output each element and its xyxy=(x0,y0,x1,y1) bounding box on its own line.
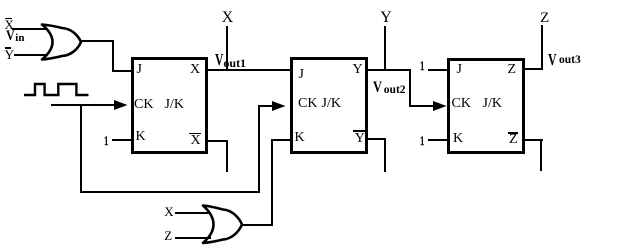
node X label top xyxy=(222,10,234,26)
wire X node vertical xyxy=(226,26,228,71)
wire into J1 xyxy=(112,70,132,72)
wire clock feed to CK1 xyxy=(51,104,117,106)
pin label J3 xyxy=(457,63,462,77)
label J/K U3 xyxy=(483,97,502,111)
label J/K U1 xyxy=(165,98,184,112)
pin label J2 xyxy=(299,68,304,82)
pin label Z out U3 xyxy=(508,63,517,77)
clock waveform symbol xyxy=(22,81,92,99)
node Z label OR2 input xyxy=(164,229,172,242)
pin label Zbar out U3 xyxy=(509,133,518,147)
wire OR1 output horizontal xyxy=(80,40,114,42)
wire into CK3 xyxy=(409,105,435,107)
or-gate G1 xyxy=(39,23,85,63)
arrowhead CK3 xyxy=(433,101,447,111)
wire Y output U2 xyxy=(365,69,411,71)
node Ybar input label xyxy=(5,48,14,61)
node Vout2 label xyxy=(373,80,382,96)
pin label X out U1 xyxy=(190,63,200,77)
flip-flop U1 box xyxy=(131,57,208,154)
pin label K3 xyxy=(453,132,463,146)
wire OR2 output vertical up xyxy=(271,139,273,226)
value 1 at J3 xyxy=(420,59,424,72)
arrowhead CK2 xyxy=(272,101,286,111)
label J/K U2 xyxy=(322,97,341,111)
wire OR2 output horizontal xyxy=(241,224,273,226)
wire Ybar output U2 xyxy=(365,138,386,140)
overline of Zbar out U3 xyxy=(508,132,518,134)
node Vout3 label xyxy=(548,51,557,68)
wire Y node vertical xyxy=(384,26,386,71)
wire Z node vertical xyxy=(541,25,543,69)
wire clock branch bottom horizontal xyxy=(80,191,260,193)
wire clock branch vertical down xyxy=(80,104,82,193)
overline of Xbar out U1 xyxy=(189,133,200,135)
wire 1 to K1 xyxy=(112,139,132,141)
node Y label top xyxy=(380,10,392,26)
wire Ybar stub vertical xyxy=(384,138,386,172)
wire Z output U3 xyxy=(523,68,544,70)
overline of Ybar out U2 xyxy=(353,130,365,132)
wire Y to CK3 vertical xyxy=(409,69,411,106)
wire Xbar output U1 xyxy=(206,140,228,142)
wire Ybar to OR1 xyxy=(14,54,51,56)
wire into K2 xyxy=(271,139,291,141)
pin label J1 xyxy=(137,63,142,77)
flip-flop U2 box xyxy=(290,57,368,154)
wire X output U1 to J2 xyxy=(206,69,291,71)
pin label Ybar out U2 xyxy=(355,132,365,146)
node Vin label xyxy=(6,29,15,44)
pin label CK1 xyxy=(134,98,153,112)
node Vout1 label xyxy=(215,51,223,68)
pin label K1 xyxy=(136,130,146,144)
wire clock branch vertical up to CK2 xyxy=(258,105,260,193)
node X label OR2 input xyxy=(164,205,173,218)
pin label Y out U2 xyxy=(353,63,363,77)
wire 1 to J3 xyxy=(428,69,447,71)
wire Zbar output U3 xyxy=(523,139,544,141)
value 1 at K1 xyxy=(104,134,108,147)
flip-flop U3 box xyxy=(447,58,525,154)
wire Z to OR2 xyxy=(175,237,211,239)
node Xbar input label xyxy=(5,18,14,31)
wire OR1 output vertical down xyxy=(112,40,114,72)
wire into CK2 xyxy=(258,105,275,107)
node Z label top xyxy=(540,11,549,26)
pin label CK2 xyxy=(298,97,317,111)
or-gate G2 xyxy=(200,204,246,245)
wire Zbar stub vertical xyxy=(540,139,542,171)
wire X to OR2 xyxy=(175,212,211,214)
wire 1 to K3 xyxy=(428,139,447,141)
overline of Ybar input xyxy=(5,47,12,49)
value 1 at K3 xyxy=(420,134,424,147)
arrowhead CK1 xyxy=(114,100,128,110)
wire Xbar stub vertical xyxy=(226,140,228,172)
pin label CK3 xyxy=(452,97,471,111)
overline of Xbar input xyxy=(5,18,12,20)
pin label K2 xyxy=(295,131,305,145)
wire Xbar to OR1 xyxy=(12,28,50,30)
pin label Xbar out U1 xyxy=(191,134,201,148)
